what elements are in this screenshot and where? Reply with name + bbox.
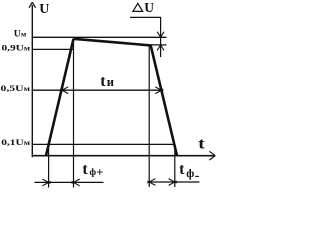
extension line at pulse top right corner: [148, 45, 150, 187]
tf- dimension line: [149, 181, 199, 183]
dU lower arrow: [157, 45, 164, 51]
delta triangle of dU label: [133, 3, 143, 11]
svg-text:0,9Uм: 0,9Uм: [2, 44, 31, 54]
droop level line (Um - dU): [142, 44, 167, 46]
pulse top (droop slope): [74, 39, 151, 46]
extension line at 0.1U crossing of rising edge: [48, 145, 50, 188]
svg-text:+: +: [96, 166, 103, 180]
svg-text:t: t: [82, 161, 88, 178]
0.5Um level line: [32, 89, 162, 91]
svg-text:U: U: [39, 2, 49, 17]
t axis (zero line): [32, 155, 214, 157]
ti left arrow: [60, 87, 68, 94]
dU upper arrow: [157, 32, 164, 38]
tf- left arrow: [147, 179, 155, 186]
svg-text:ф: ф: [186, 168, 194, 180]
svg-text:0,1Uм: 0,1Uм: [1, 138, 30, 147]
ti right arrow: [155, 87, 163, 94]
0.9Um level line: [32, 48, 74, 50]
U axis arrowhead: [29, 2, 35, 8]
svg-text:-: -: [195, 169, 200, 184]
Um level line: [32, 36, 167, 38]
svg-text:t: t: [179, 161, 185, 178]
svg-text:U: U: [144, 0, 154, 15]
svg-text:tи: tи: [100, 73, 114, 90]
t axis arrowhead: [209, 151, 215, 160]
extension line at pulse top left corner: [73, 39, 75, 188]
U axis: [31, 5, 33, 157]
0.1Um level line: [32, 143, 174, 145]
pulse falling edge: [151, 45, 177, 155]
svg-text:t: t: [198, 134, 205, 152]
tf+ dimension line: [34, 181, 103, 183]
tf+ left arrow: [42, 179, 50, 186]
tf+ right arrow: [72, 179, 80, 186]
svg-text:0,5Uм: 0,5Uм: [1, 84, 31, 93]
extension line at 0.1U crossing of falling edge: [174, 145, 176, 188]
svg-text:Uм: Uм: [14, 30, 26, 40]
dU leader line: [130, 17, 161, 57]
pulse rising edge: [46, 39, 74, 156]
tf- right arrow: [169, 179, 177, 186]
